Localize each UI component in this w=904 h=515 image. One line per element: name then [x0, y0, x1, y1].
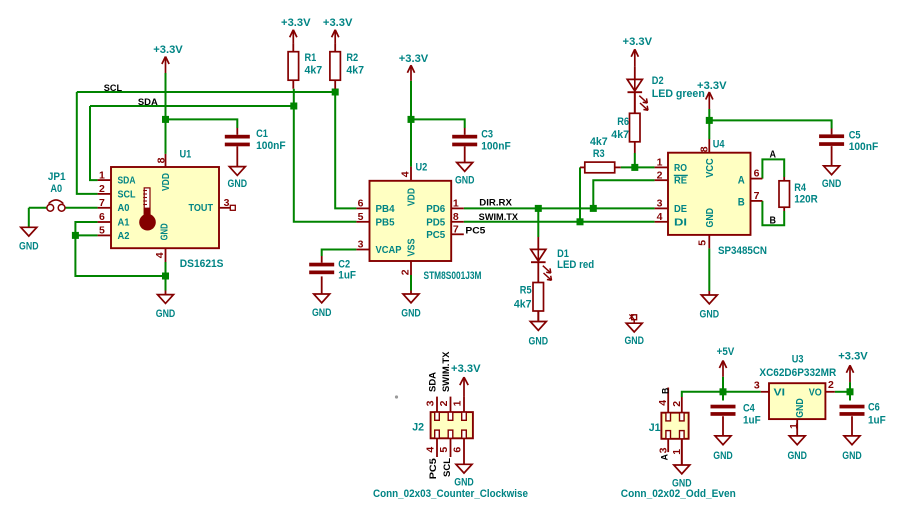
svg-text:VCAP: VCAP: [376, 245, 402, 256]
svg-text:R2: R2: [346, 52, 358, 64]
svg-text:VI: VI: [774, 388, 786, 399]
svg-text:2: 2: [99, 183, 105, 195]
svg-text:J2: J2: [412, 422, 424, 434]
svg-text:SCL: SCL: [442, 457, 452, 477]
svg-text:5: 5: [696, 240, 708, 246]
svg-text:120R: 120R: [794, 193, 818, 205]
svg-text:2: 2: [657, 169, 663, 181]
svg-text:B: B: [738, 197, 745, 209]
svg-text:STM8S001J3M: STM8S001J3M: [424, 270, 482, 282]
svg-text:LED red: LED red: [557, 259, 594, 271]
svg-text:PC5: PC5: [428, 458, 438, 479]
svg-text:1: 1: [671, 449, 683, 455]
svg-text:GND: GND: [529, 336, 549, 348]
svg-text:A: A: [659, 454, 669, 461]
svg-text:R6: R6: [617, 116, 629, 128]
svg-text:4: 4: [657, 211, 663, 223]
svg-text:C5: C5: [849, 130, 861, 142]
svg-text:R4: R4: [794, 182, 807, 194]
svg-text:5: 5: [99, 225, 105, 237]
svg-text:TOUT: TOUT: [189, 203, 214, 214]
svg-text:PC5: PC5: [465, 225, 485, 235]
svg-text:+3.3V: +3.3V: [451, 363, 481, 375]
svg-text:B: B: [660, 387, 670, 394]
svg-text:PB4: PB4: [376, 204, 395, 215]
svg-text:6: 6: [358, 198, 364, 210]
svg-text:4k7: 4k7: [590, 136, 608, 148]
svg-text:100nF: 100nF: [481, 141, 511, 153]
svg-text:+3.3V: +3.3V: [153, 44, 183, 56]
svg-text:1: 1: [453, 198, 459, 210]
svg-text:7: 7: [754, 190, 760, 202]
svg-text:RE: RE: [674, 176, 687, 187]
svg-text:JP1: JP1: [48, 171, 66, 183]
svg-text:SDA: SDA: [427, 371, 437, 392]
svg-text:LED green: LED green: [652, 88, 705, 100]
svg-text:DIR.RX: DIR.RX: [479, 198, 512, 208]
svg-text:GND: GND: [228, 178, 248, 190]
svg-text:5: 5: [438, 447, 450, 453]
svg-text:2: 2: [400, 269, 412, 275]
svg-text:R5: R5: [520, 285, 532, 297]
svg-text:U2: U2: [416, 162, 428, 174]
svg-text:8: 8: [698, 146, 710, 152]
svg-text:1uF: 1uF: [338, 269, 356, 281]
svg-text:R1: R1: [305, 52, 317, 64]
svg-text:A1: A1: [118, 217, 130, 228]
svg-text:5: 5: [358, 211, 364, 223]
svg-text:4k7: 4k7: [346, 64, 364, 76]
svg-text:J1: J1: [649, 422, 661, 434]
svg-text:A0: A0: [118, 203, 130, 214]
svg-text:C3: C3: [481, 129, 493, 141]
svg-text:7: 7: [99, 197, 105, 209]
svg-text:DS1621S: DS1621S: [180, 258, 224, 270]
svg-text:6: 6: [99, 211, 105, 223]
svg-text:7: 7: [453, 224, 459, 236]
svg-text:GND: GND: [842, 450, 862, 462]
svg-text:GND: GND: [713, 450, 733, 462]
svg-text:GND: GND: [705, 208, 716, 228]
svg-text:A: A: [738, 174, 745, 186]
svg-text:3: 3: [657, 447, 669, 453]
svg-text:A2: A2: [118, 231, 130, 242]
svg-text:8: 8: [155, 157, 167, 163]
svg-text:GND: GND: [312, 307, 332, 319]
svg-text:1uF: 1uF: [868, 414, 886, 426]
svg-text:C4: C4: [743, 403, 756, 415]
svg-text:3: 3: [657, 198, 663, 210]
svg-text:C6: C6: [868, 402, 880, 414]
svg-text:2: 2: [671, 401, 683, 407]
svg-text:GND: GND: [455, 175, 475, 187]
svg-text:Conn_02x03_Counter_Clockwise: Conn_02x03_Counter_Clockwise: [373, 488, 528, 500]
svg-text:GND: GND: [624, 335, 644, 347]
svg-text:RO: RO: [674, 163, 687, 174]
svg-text:6: 6: [754, 168, 760, 180]
svg-text:GND: GND: [454, 477, 474, 489]
svg-text:3: 3: [358, 239, 364, 251]
svg-text:8: 8: [453, 211, 459, 223]
svg-text:GND: GND: [700, 308, 720, 320]
svg-text:VO: VO: [809, 387, 822, 398]
svg-text:4: 4: [154, 252, 166, 258]
svg-text:B: B: [770, 215, 777, 226]
svg-text:Conn_02x02_Odd_Even: Conn_02x02_Odd_Even: [621, 488, 736, 500]
svg-text:PD5: PD5: [426, 217, 445, 228]
svg-text:D2: D2: [652, 75, 664, 87]
svg-text:SWIM.TX: SWIM.TX: [479, 212, 518, 222]
svg-text:GND: GND: [795, 398, 806, 418]
svg-text:3: 3: [224, 197, 230, 209]
svg-text:SCL: SCL: [104, 83, 123, 93]
svg-text:100nF: 100nF: [256, 140, 286, 152]
svg-text:+3.3V: +3.3V: [838, 350, 868, 362]
svg-text:GND: GND: [822, 178, 842, 190]
svg-text:100nF: 100nF: [849, 141, 879, 153]
svg-text:+3.3V: +3.3V: [623, 36, 653, 48]
svg-text:1: 1: [657, 157, 663, 169]
svg-text:PB5: PB5: [376, 217, 395, 228]
svg-text:4: 4: [657, 400, 669, 406]
svg-text:VCC: VCC: [705, 158, 716, 178]
svg-text:+5V: +5V: [717, 346, 735, 358]
svg-text:A0: A0: [50, 183, 62, 195]
svg-text:DE: DE: [674, 204, 687, 215]
svg-text:XC62D6P332MR: XC62D6P332MR: [759, 367, 836, 379]
svg-text:DI: DI: [674, 217, 687, 228]
svg-text:4k7: 4k7: [305, 64, 323, 76]
svg-text:U4: U4: [713, 138, 726, 150]
svg-text:PC5: PC5: [426, 230, 445, 241]
svg-text:R3: R3: [593, 148, 605, 160]
svg-text:4: 4: [425, 447, 437, 453]
svg-text:3: 3: [425, 400, 437, 406]
svg-text:1: 1: [99, 169, 105, 181]
svg-text:4: 4: [400, 171, 412, 177]
svg-text:VSS: VSS: [407, 238, 418, 256]
svg-text:SP3485CN: SP3485CN: [718, 245, 767, 257]
svg-text:+3.3V: +3.3V: [281, 17, 311, 29]
svg-text:1: 1: [788, 423, 800, 429]
svg-text:GND: GND: [19, 240, 39, 252]
svg-text:GND: GND: [401, 308, 421, 320]
svg-text:GND: GND: [156, 308, 176, 320]
svg-text:C1: C1: [256, 128, 268, 140]
svg-text:4k7: 4k7: [514, 299, 532, 311]
svg-text:SDA: SDA: [118, 176, 136, 187]
svg-text:6: 6: [452, 447, 464, 453]
svg-text:+3.3V: +3.3V: [323, 17, 353, 29]
svg-text:1: 1: [452, 400, 464, 406]
svg-text:3: 3: [754, 380, 760, 392]
svg-text:VDD: VDD: [407, 188, 418, 206]
svg-text:SCL: SCL: [118, 189, 136, 200]
svg-text:+3.3V: +3.3V: [399, 53, 429, 65]
svg-text:2: 2: [438, 400, 450, 406]
svg-text:PD6: PD6: [426, 204, 445, 215]
svg-text:U1: U1: [180, 148, 192, 160]
svg-text:U3: U3: [792, 354, 804, 366]
svg-text:VDD: VDD: [161, 173, 172, 191]
svg-text:A: A: [770, 150, 777, 161]
svg-text:SDA: SDA: [138, 97, 158, 107]
svg-text:SWIM.TX: SWIM.TX: [441, 352, 451, 392]
svg-text:1uF: 1uF: [743, 414, 761, 426]
svg-text:GND: GND: [787, 450, 807, 462]
svg-text:GND: GND: [160, 223, 171, 240]
svg-text:2: 2: [828, 379, 834, 391]
svg-text:4k7: 4k7: [611, 129, 629, 141]
